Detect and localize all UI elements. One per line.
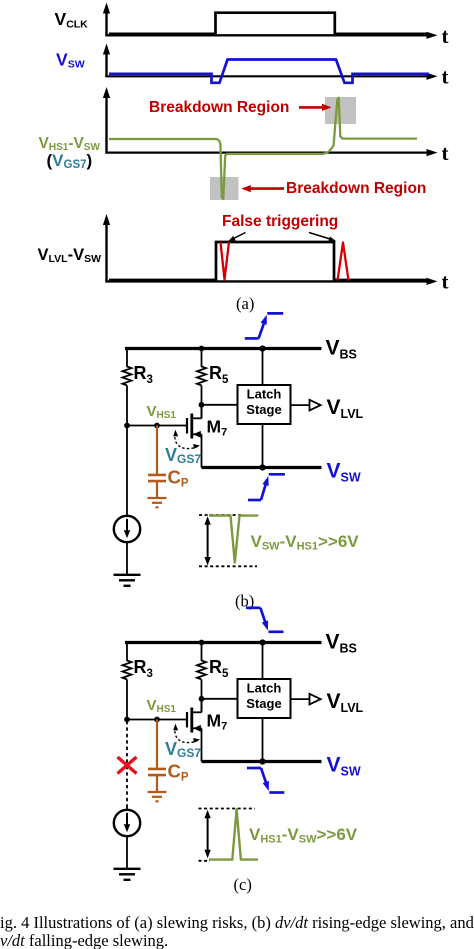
capacitor C_P plates (b) <box>148 475 166 481</box>
svg-text:Stage: Stage <box>246 402 281 417</box>
V_BS rail (b) <box>125 347 322 350</box>
svg-text:M7: M7 <box>207 417 228 439</box>
wire R3 to node V_HS1 (b) <box>126 386 128 427</box>
breakdown highlight box upper (gray) <box>325 97 356 124</box>
svg-text:t: t <box>442 270 449 294</box>
wire latch top (b) <box>262 349 264 386</box>
svg-text:(c): (c) <box>234 875 252 894</box>
wire dashed-to-source stub (c) <box>126 807 128 811</box>
output wire (c) <box>291 698 310 700</box>
svg-text:R3: R3 <box>134 657 153 680</box>
inset (c): double-headed arrow <box>204 810 210 859</box>
node dot at rail/latch (c) <box>259 639 265 645</box>
node dot V_HS1 left (b) <box>124 423 130 429</box>
figure caption line 1 <box>0 913 474 933</box>
svg-text:VLVL: VLVL <box>327 396 364 421</box>
wire R5 branch top (b) <box>201 347 203 367</box>
svg-text:VSW: VSW <box>327 754 361 779</box>
node dot V_SW rail / latch (b) <box>259 464 265 470</box>
axis 4 vertical <box>103 214 110 281</box>
node dot at rail/R5 (c) <box>199 640 205 646</box>
inset (c): top dashed level <box>199 808 256 810</box>
wire drain node to latch (b) <box>202 404 238 406</box>
node dot V_HS1 at C_P branch (b) <box>154 423 160 429</box>
red X mark (open-circuit) (c) <box>118 757 137 774</box>
current source I (c) <box>114 810 140 836</box>
svg-text:VHS1: VHS1 <box>147 697 177 715</box>
svg-text:t: t <box>442 24 449 48</box>
ground (main) (b) <box>114 575 141 586</box>
svg-text:VHS1: VHS1 <box>147 403 177 421</box>
red glitch spike 1 (downward) <box>221 242 230 280</box>
red glitch spike 2 (upward) <box>338 243 349 281</box>
inset (b): green V_GS spike down <box>209 516 258 563</box>
figure caption line 2 <box>0 931 168 949</box>
latch stage box (b) <box>238 385 291 424</box>
axis 2 (V_SW) horizontal with t <box>105 65 448 89</box>
blue rising-edge slew symbol below V_SW (b) <box>248 474 285 500</box>
axis 4 horizontal with t <box>105 270 448 294</box>
text False triggering with pointer arrows <box>222 213 338 242</box>
waveform V_CLK pulse <box>109 13 429 34</box>
svg-text:VBS: VBS <box>326 631 357 656</box>
svg-text:VSW: VSW <box>327 460 361 485</box>
ground (orange, under C_P) (b) <box>148 498 167 507</box>
axis 1 (V_CLK) horizontal with t <box>105 24 448 48</box>
blue falling-edge slew symbol above V_BS (c) <box>246 608 284 632</box>
svg-text:Breakdown Region: Breakdown Region <box>149 99 289 116</box>
capacitor C_P wire (c) <box>156 720 158 768</box>
svg-text:t: t <box>442 141 449 165</box>
transistor M7 gate wire (c) <box>127 719 187 721</box>
svg-text:VBS: VBS <box>326 337 357 362</box>
svg-text:Latch: Latch <box>247 681 282 696</box>
wire R5 to drain node (c) <box>201 680 203 713</box>
capacitor C_P plates (c) <box>148 769 166 775</box>
dashed arc V_GS7 gate-to-source (c) <box>173 724 200 743</box>
resistor R5 (c) <box>197 661 206 680</box>
axis 3 horizontal with t <box>105 141 448 165</box>
svg-text:t: t <box>442 65 449 89</box>
wire current source to ground (b) <box>126 542 128 574</box>
V_BS rail (c) <box>125 641 322 644</box>
inset (b): bottom dashed level <box>199 565 257 567</box>
V_SW rail (b) <box>202 466 322 469</box>
svg-text:(VGS7): (VGS7) <box>47 151 93 171</box>
text Breakdown Region (bottom) with red arrow <box>241 180 426 197</box>
capacitor C_P wire (b) <box>156 426 158 474</box>
wire latch bottom (c) <box>262 718 264 762</box>
wire R3 to node V_HS1 (c) <box>126 680 128 721</box>
current source I (b) <box>114 516 140 542</box>
breakdown highlight box lower (gray) <box>210 177 239 200</box>
node dot V_HS1 left (c) <box>124 717 130 723</box>
node dot drain/R5/latch (b) <box>199 402 205 408</box>
wire latch bottom (b) <box>262 424 264 468</box>
node dot V_SW rail / latch (c) <box>259 758 265 764</box>
ground (main) (c) <box>114 869 141 880</box>
inset (c): bottom dashed level (short) <box>199 860 211 862</box>
svg-text:VCLK: VCLK <box>55 9 89 31</box>
axis 3 vertical <box>103 87 110 153</box>
transistor M7 gate wire (b) <box>127 425 187 427</box>
svg-text:Breakdown Region: Breakdown Region <box>286 180 426 197</box>
waveform V_HS1-V_SW (green with breakdown spikes) <box>109 98 417 199</box>
svg-text:VSW: VSW <box>56 50 85 71</box>
dashed arc V_GS7 gate-to-source (b) <box>173 430 200 449</box>
svg-text:R3: R3 <box>134 363 153 386</box>
wire R5 branch top (c) <box>201 641 203 661</box>
text Breakdown Region (top) with red arrow <box>149 99 332 116</box>
transistor M7 (b) <box>187 405 202 468</box>
wire left branch top (c) <box>126 641 128 661</box>
inset (b): double-headed arrow <box>204 516 210 565</box>
blue falling-edge slew symbol below V_SW (c) <box>247 768 284 793</box>
waveform V_LVL-V_SW pulse (black) <box>109 242 429 280</box>
wire drain node to latch (c) <box>202 698 238 700</box>
wire latch top (c) <box>262 643 264 680</box>
svg-text:(a): (a) <box>236 294 254 313</box>
wire V_HS1 node to current source (b) <box>126 426 128 517</box>
svg-text:CP: CP <box>168 761 189 784</box>
wire left branch top (b) <box>126 347 128 367</box>
latch stage box (c) <box>238 679 291 718</box>
transistor M7 (c) <box>187 699 202 762</box>
node dot drain/R5/latch (c) <box>199 696 205 702</box>
inset (b): top dashed level <box>199 514 243 516</box>
svg-text:R5: R5 <box>209 657 229 680</box>
wire current source to ground (c) <box>126 836 128 868</box>
node dot V_HS1 at C_P branch (c) <box>154 717 160 723</box>
node dot at rail/R5 (b) <box>199 346 205 352</box>
wire C_P to ground (c) <box>156 775 158 791</box>
resistor R5 (b) <box>197 367 206 386</box>
svg-text:VSW-VHS1>>6V: VSW-VHS1>>6V <box>251 532 360 552</box>
inset (c): green V_GS spike up <box>209 809 258 859</box>
node dot at rail/latch (b) <box>259 345 265 351</box>
blue rising-edge slew symbol above V_BS (b) <box>245 313 283 338</box>
V_SW rail (c) <box>202 760 322 763</box>
axis 1 (V_CLK) vertical <box>103 3 110 36</box>
ground (orange, under C_P) (c) <box>148 792 167 801</box>
resistor R3 (b) <box>123 367 132 386</box>
waveform V_SW (blue, slewing with notches) <box>109 60 429 83</box>
axis 2 (V_SW) vertical <box>103 44 110 77</box>
svg-text:R5: R5 <box>209 363 229 386</box>
output open arrowhead (b) <box>310 400 321 411</box>
svg-text:VLVL-VSW: VLVL-VSW <box>38 246 102 265</box>
svg-text:VLVL: VLVL <box>327 690 364 715</box>
svg-text:False triggering: False triggering <box>222 213 338 230</box>
svg-text:VHS1-VSW>>6V: VHS1-VSW>>6V <box>249 825 358 845</box>
svg-text:CP: CP <box>168 467 189 490</box>
svg-text:Latch: Latch <box>247 387 282 402</box>
output wire (b) <box>291 404 310 406</box>
svg-text:M7: M7 <box>207 711 228 733</box>
wire C_P to ground (b) <box>156 481 158 497</box>
wire R5 to drain node (b) <box>201 386 203 419</box>
dashed wire left branch (c) <box>126 721 128 807</box>
output open arrowhead (c) <box>310 694 321 705</box>
svg-text:Stage: Stage <box>246 696 281 711</box>
resistor R3 (c) <box>123 661 132 680</box>
